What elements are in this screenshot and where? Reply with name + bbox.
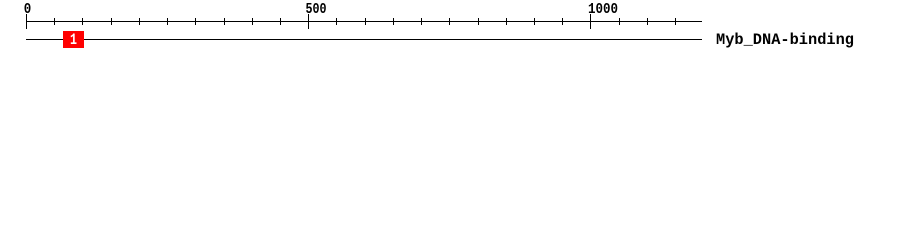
svg-text:1000: 1000 [588, 1, 618, 18]
minor tick 50 [54, 18, 55, 25]
major tick 1000 [590, 14, 591, 29]
domain box Myb_DNA-binding [63, 31, 84, 48]
minor tick 1150 [675, 18, 676, 25]
major tick 0 [26, 14, 27, 29]
minor tick 400 [252, 18, 253, 25]
minor tick 900 [534, 18, 535, 25]
ruler axis line [26, 21, 702, 22]
svg-text:500: 500 [306, 1, 327, 18]
background [0, 0, 900, 58]
minor tick 450 [280, 18, 281, 25]
major tick 500 [308, 14, 309, 29]
minor tick 200 [139, 18, 140, 25]
minor tick 1100 [647, 18, 648, 25]
sequence line [26, 39, 702, 40]
minor tick 850 [506, 18, 507, 25]
minor tick 800 [478, 18, 479, 25]
svg-text:1: 1 [70, 31, 77, 49]
svg-text:Myb_DNA-binding: Myb_DNA-binding [716, 31, 854, 49]
minor tick 150 [111, 18, 112, 25]
minor tick 550 [336, 18, 337, 25]
minor tick 1050 [619, 18, 620, 25]
svg-text:0: 0 [24, 1, 32, 18]
minor tick 950 [562, 18, 563, 25]
minor tick 300 [195, 18, 196, 25]
minor tick 100 [82, 18, 83, 25]
minor tick 350 [224, 18, 225, 25]
minor tick 600 [365, 18, 366, 25]
minor tick 250 [167, 18, 168, 25]
minor tick 650 [393, 18, 394, 25]
minor tick 700 [421, 18, 422, 25]
minor tick 750 [449, 18, 450, 25]
